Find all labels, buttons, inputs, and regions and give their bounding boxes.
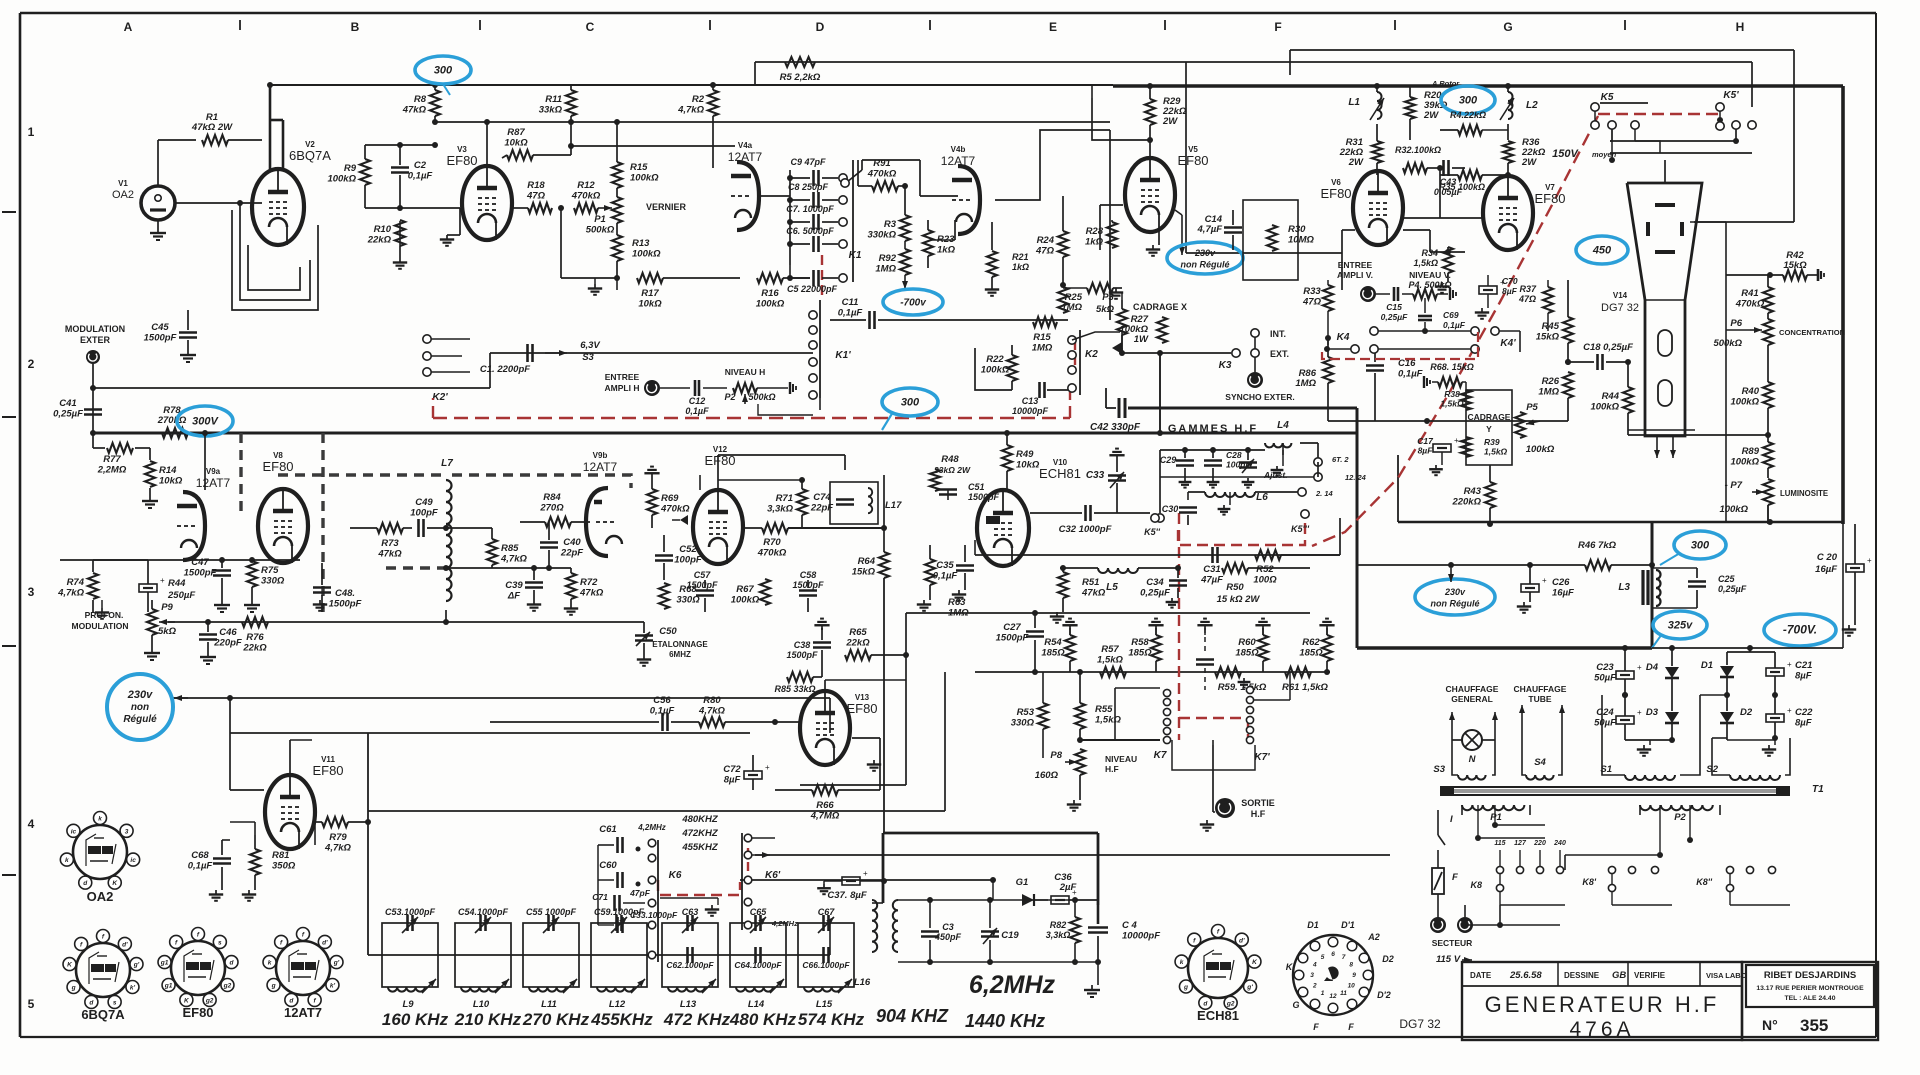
svg-text:C64.1000pF: C64.1000pF xyxy=(734,960,782,970)
svg-text:non Régulé: non Régulé xyxy=(1431,598,1480,608)
ground P8 xyxy=(1067,800,1081,811)
svg-text:L13: L13 xyxy=(680,999,697,1010)
switch K8 taps xyxy=(1470,840,1565,905)
potentiometer P3 CADRAGE X xyxy=(1096,292,1187,352)
svg-text:B: B xyxy=(351,20,360,34)
resistor R60 185 xyxy=(1235,619,1270,672)
svg-text:k: k xyxy=(65,857,69,864)
svg-text:C70: C70 xyxy=(1502,276,1518,286)
svg-text:355: 355 xyxy=(1800,1016,1828,1035)
svg-text:1,5kΩ: 1,5kΩ xyxy=(1440,399,1464,409)
ground R69 top xyxy=(644,467,659,478)
svg-text:C34: C34 xyxy=(1146,577,1164,588)
svg-text:100pF: 100pF xyxy=(674,555,702,566)
capacitor C28 100pF xyxy=(1204,450,1251,488)
svg-text:C51: C51 xyxy=(968,482,985,492)
resistor R41 470k xyxy=(1735,275,1773,318)
svg-text:D1: D1 xyxy=(1701,660,1713,671)
svg-text:220pF: 220pF xyxy=(213,638,242,649)
capacitor C22 8uF xyxy=(1766,692,1813,741)
resistor R40 100k xyxy=(1730,375,1773,420)
svg-text:TEL : ALE 24.40: TEL : ALE 24.40 xyxy=(1785,995,1836,1002)
capacitor C41 0.25uF xyxy=(53,385,102,436)
svg-text:0,1µF: 0,1µF xyxy=(838,308,863,319)
svg-text:0,25µF: 0,25µF xyxy=(53,409,83,420)
svg-text:8µF: 8µF xyxy=(1795,718,1812,729)
label 150V moyen xyxy=(1552,148,1616,163)
svg-text:EF80: EF80 xyxy=(312,763,343,778)
svg-text:47Ω: 47Ω xyxy=(1302,297,1322,308)
svg-text:127: 127 xyxy=(1514,840,1527,847)
svg-text:A: A xyxy=(124,20,133,34)
svg-text:C2: C2 xyxy=(414,160,427,171)
svg-text:N: N xyxy=(1469,754,1477,765)
svg-text:470kΩ: 470kΩ xyxy=(660,504,690,515)
svg-text:NIVEAU: NIVEAU xyxy=(1105,754,1137,764)
resistor R23 1k xyxy=(923,220,956,268)
svg-text:0,1µF: 0,1µF xyxy=(188,861,213,872)
tube V6 EF80 xyxy=(1320,171,1403,245)
svg-text:+: + xyxy=(1787,706,1792,715)
svg-text:R49: R49 xyxy=(1016,449,1034,460)
svg-text:+: + xyxy=(1867,556,1872,565)
wire osc mid horizontals xyxy=(740,855,1390,900)
svg-text:4,7MΩ: 4,7MΩ xyxy=(810,811,840,822)
svg-text:R74: R74 xyxy=(67,577,85,588)
blue note 230v non regule big xyxy=(1415,579,1495,615)
resistor R82 3.3k xyxy=(1046,897,1080,965)
ground C4 xyxy=(1084,985,1100,997)
tube V7 EF80 xyxy=(1483,176,1566,250)
capacitor C68 0.1uF xyxy=(188,840,231,890)
svg-text:R63: R63 xyxy=(948,597,966,608)
svg-text:+: + xyxy=(765,763,770,772)
terminal MODULATION EXTER xyxy=(65,324,125,433)
svg-text:480 KHz: 480 KHz xyxy=(729,1010,797,1029)
svg-text:L7: L7 xyxy=(441,458,453,469)
wire CRT cathode link xyxy=(1628,430,1771,438)
wire attenuator bus xyxy=(975,671,1330,673)
svg-text:SYNCHO EXTER.: SYNCHO EXTER. xyxy=(1225,392,1294,402)
svg-text:4,7µF: 4,7µF xyxy=(1197,224,1223,235)
red dashed screen link main xyxy=(433,392,1070,418)
svg-text:D2: D2 xyxy=(1740,707,1753,718)
svg-text:4,7kΩ: 4,7kΩ xyxy=(57,588,84,599)
title block xyxy=(1462,962,1747,1041)
svg-text:C19: C19 xyxy=(1001,930,1019,941)
red dashed K6 link xyxy=(658,848,748,895)
resistor R20 39k 2W xyxy=(1405,79,1460,140)
capacitor C58 1500pF xyxy=(792,570,824,612)
capacitor C37 8uF xyxy=(827,869,887,901)
resistor R58 185 xyxy=(1128,619,1163,672)
svg-text:+: + xyxy=(1542,576,1547,585)
label 480 KHz xyxy=(729,1010,797,1029)
capacitor C60 xyxy=(598,860,641,925)
svg-text:L5: L5 xyxy=(1106,582,1118,593)
svg-text:d': d' xyxy=(322,940,328,947)
svg-text:I: I xyxy=(1450,814,1453,825)
wire V3 plate xyxy=(484,119,490,166)
blue note 325v xyxy=(1652,611,1707,648)
svg-text:C60: C60 xyxy=(599,860,617,871)
ground C39 xyxy=(527,600,541,611)
label CHAUFFAGE GENERAL xyxy=(1446,684,1499,704)
diode G1 xyxy=(1016,877,1048,906)
svg-text:47kΩ 2W: 47kΩ 2W xyxy=(191,122,233,133)
svg-text:+: + xyxy=(863,869,868,878)
resistor R29 22k 2W xyxy=(1145,83,1187,160)
resistor R78 270k xyxy=(157,405,188,438)
svg-text:D2: D2 xyxy=(1382,954,1394,964)
ground R81 xyxy=(242,890,256,901)
svg-text:3,3kΩ: 3,3kΩ xyxy=(1046,930,1071,940)
svg-text:C8 250pF: C8 250pF xyxy=(788,182,829,192)
svg-text:100kΩ: 100kΩ xyxy=(1730,457,1759,468)
svg-text:C9 47pF: C9 47pF xyxy=(790,157,826,167)
wire bottom feedback long xyxy=(168,621,644,623)
svg-text:5kΩ: 5kΩ xyxy=(1096,304,1115,315)
svg-text:100kΩ: 100kΩ xyxy=(731,595,760,606)
svg-text:g: g xyxy=(1183,984,1188,991)
svg-text:C38: C38 xyxy=(794,640,811,650)
svg-text:6MHZ: 6MHZ xyxy=(669,650,691,659)
svg-text:C3: C3 xyxy=(942,922,954,932)
svg-text:2: 2 xyxy=(1312,983,1317,990)
capacitor C29 xyxy=(1160,450,1194,488)
resistor R79 4.7k xyxy=(315,817,371,854)
potentiometer P2 500k NIVEAU H xyxy=(724,367,813,415)
capacitor C1 2200pF xyxy=(480,340,601,375)
svg-text:ECH81: ECH81 xyxy=(1197,1008,1239,1023)
svg-text:C35: C35 xyxy=(936,560,954,571)
wire V2 anode leads xyxy=(267,82,283,170)
capacitor C70 8uF xyxy=(1475,275,1518,319)
svg-text:240: 240 xyxy=(1553,840,1566,847)
svg-text:6BQ7A: 6BQ7A xyxy=(289,148,331,163)
svg-text:22kΩ: 22kΩ xyxy=(845,638,870,649)
capacitor C6 5000pF xyxy=(786,226,847,252)
svg-text:330kΩ: 330kΩ xyxy=(867,230,896,241)
coil L6 xyxy=(1188,488,1334,503)
ground C46 xyxy=(200,652,216,664)
wire 300V main bus xyxy=(93,432,1357,435)
potentiometer P9 PROFON MODULATION xyxy=(72,600,177,648)
svg-text:6: 6 xyxy=(1331,951,1335,958)
svg-text:1500pF: 1500pF xyxy=(786,650,818,660)
label 6,2MHz xyxy=(969,971,1056,999)
svg-text:R24: R24 xyxy=(1037,235,1055,246)
svg-text:5: 5 xyxy=(28,997,35,1011)
svg-text:0,1µF: 0,1µF xyxy=(650,706,675,717)
ground V8 screen xyxy=(95,600,109,619)
resistor R1 47k 2W xyxy=(191,112,262,145)
potentiometer P1 500k VERNIER xyxy=(586,188,687,236)
wire S1 S2 loops xyxy=(1602,692,1727,775)
svg-text:47Ω: 47Ω xyxy=(1035,246,1055,257)
svg-text:R79: R79 xyxy=(329,832,347,843)
svg-text:4,7kΩ: 4,7kΩ xyxy=(324,843,351,854)
svg-text:230v: 230v xyxy=(1444,587,1466,597)
svg-text:R13: R13 xyxy=(632,238,650,249)
svg-text:s: s xyxy=(113,1000,117,1007)
svg-text:EF80: EF80 xyxy=(1320,186,1351,201)
svg-text:C1. 2200pF: C1. 2200pF xyxy=(480,364,530,375)
svg-text:R11: R11 xyxy=(545,94,562,105)
coil L15 xyxy=(804,979,852,1010)
svg-text:MODULATION: MODULATION xyxy=(65,324,125,334)
svg-text:g: g xyxy=(271,983,276,990)
svg-text:7: 7 xyxy=(1342,954,1346,961)
capacitor C13 10000pF xyxy=(1012,382,1070,416)
svg-text:C25: C25 xyxy=(1718,574,1736,584)
resistor R65 22k xyxy=(845,627,909,660)
coil L2 xyxy=(1500,83,1538,140)
wire K5 links xyxy=(1610,129,1660,160)
svg-text:C22: C22 xyxy=(1795,707,1813,718)
svg-text:CHAUFFAGE: CHAUFFAGE xyxy=(1446,684,1499,694)
capacitor C42 330pF xyxy=(1090,388,1141,433)
svg-text:C62.1000pF: C62.1000pF xyxy=(666,960,714,970)
resistor R35 100k xyxy=(1439,170,1511,192)
svg-text:185Ω: 185Ω xyxy=(1235,648,1259,659)
wire R5 feed xyxy=(755,62,1752,107)
svg-text:185Ω: 185Ω xyxy=(1299,648,1323,659)
switch K4 xyxy=(1324,327,1520,353)
svg-text:+: + xyxy=(1454,436,1459,445)
svg-text:H.F: H.F xyxy=(1251,809,1266,819)
svg-text:4,7kΩ: 4,7kΩ xyxy=(698,706,725,717)
svg-text:C21: C21 xyxy=(1795,660,1812,671)
potentiometer P7 100k LUMINOSITE xyxy=(1719,479,1828,524)
switch K5gammes contacts xyxy=(1144,510,1310,537)
svg-text:L2: L2 xyxy=(1526,100,1538,111)
svg-text:230v: 230v xyxy=(127,689,153,701)
coil L11 xyxy=(529,979,577,1010)
svg-text:R45: R45 xyxy=(1542,321,1560,332)
capacitor C4 10000pF xyxy=(1088,905,1160,985)
svg-text:1500pF: 1500pF xyxy=(686,580,718,590)
svg-text:13.17 RUE PERIER MONTROUGE: 13.17 RUE PERIER MONTROUGE xyxy=(1756,985,1864,992)
terminal INT EXT xyxy=(1251,329,1289,359)
svg-text:300: 300 xyxy=(1459,95,1478,107)
wire V4a output xyxy=(757,170,790,265)
svg-text:MODULATION: MODULATION xyxy=(72,621,129,631)
svg-text:C46: C46 xyxy=(219,627,237,638)
wire niveau hf run xyxy=(368,672,945,811)
switch K2 xyxy=(1068,330,1122,395)
svg-text:P4. 500kΩ: P4. 500kΩ xyxy=(1408,280,1451,290)
svg-text:270Ω: 270Ω xyxy=(539,503,564,514)
resistor R64 15k xyxy=(852,475,889,833)
svg-text:C72: C72 xyxy=(723,764,741,775)
wire K5 row xyxy=(1610,125,1752,153)
svg-text:0,25µF: 0,25µF xyxy=(1140,588,1170,599)
svg-text:R55: R55 xyxy=(1095,704,1113,715)
resistor R71 3.3k xyxy=(718,477,807,528)
svg-text:5: 5 xyxy=(1321,954,1325,961)
svg-text:500kΩ: 500kΩ xyxy=(748,392,775,402)
svg-text:904 KHZ: 904 KHZ xyxy=(876,1006,949,1026)
svg-text:k: k xyxy=(98,816,102,823)
capacitor C8 250pF xyxy=(787,182,847,208)
svg-text:4: 4 xyxy=(28,817,35,831)
svg-text:500kΩ: 500kΩ xyxy=(586,225,615,236)
svg-text:C41: C41 xyxy=(59,398,76,409)
ground P9 xyxy=(144,648,160,660)
svg-text:100kΩ: 100kΩ xyxy=(1590,402,1619,413)
svg-text:C 4: C 4 xyxy=(1122,920,1138,931)
svg-text:LUMINOSITE: LUMINOSITE xyxy=(1780,489,1828,498)
resistor R34 1.5k xyxy=(1413,247,1453,293)
svg-text:Régulé: Régulé xyxy=(123,714,157,725)
svg-text:47kΩ: 47kΩ xyxy=(377,549,402,560)
capacitor C55_1000pF xyxy=(523,907,579,987)
svg-text:R82: R82 xyxy=(1050,920,1067,930)
svg-text:R41: R41 xyxy=(1741,288,1758,299)
svg-text:0,1µF: 0,1µF xyxy=(685,406,709,416)
wire transformer interconnect xyxy=(1475,805,1693,870)
svg-text:+: + xyxy=(1637,708,1642,717)
svg-text:GB: GB xyxy=(1612,970,1626,981)
capacitor C54.1000pF xyxy=(455,907,511,987)
wire ech81 out xyxy=(975,540,1340,555)
svg-text:1: 1 xyxy=(28,125,35,139)
svg-text:P5: P5 xyxy=(1526,402,1538,413)
capacitor C19 variable xyxy=(981,897,1019,965)
switch K6 contacts xyxy=(637,823,682,962)
svg-text:ECH81: ECH81 xyxy=(1039,466,1081,481)
svg-text:C58: C58 xyxy=(800,570,817,580)
svg-text:g1: g1 xyxy=(160,960,169,967)
capacitor C67 xyxy=(798,907,854,987)
resistor R3 330k xyxy=(867,186,910,241)
svg-text:15 kΩ 2W: 15 kΩ 2W xyxy=(1217,594,1261,605)
resistor R43 220k xyxy=(1451,465,1495,527)
ground R33b xyxy=(985,285,999,296)
svg-text:47pF: 47pF xyxy=(629,888,651,898)
resistor R18 47 xyxy=(512,180,552,213)
svg-text:V9a: V9a xyxy=(206,467,221,476)
wire 12AT7 V9a grid drop xyxy=(202,430,208,490)
svg-text:R14: R14 xyxy=(159,465,177,476)
resistor R73 47k xyxy=(350,523,412,560)
svg-text:R75: R75 xyxy=(261,565,279,576)
svg-text:100kΩ: 100kΩ xyxy=(630,173,659,184)
red dashed diagonal to K5 xyxy=(1312,116,1598,546)
svg-text:R60: R60 xyxy=(1238,637,1256,648)
resistor R48 33k xyxy=(930,454,971,491)
trimmer Ajust xyxy=(1239,450,1288,488)
svg-text:ENTREE: ENTREE xyxy=(605,372,640,382)
capacitor C7 1000pF xyxy=(786,204,847,230)
svg-text:230v: 230v xyxy=(1194,248,1216,258)
label 574 KHz xyxy=(798,1010,865,1029)
svg-text:GENERATEUR H.F: GENERATEUR H.F xyxy=(1485,992,1720,1017)
svg-text:R2: R2 xyxy=(692,94,705,105)
svg-text:2: 2 xyxy=(28,357,35,371)
svg-text:R87: R87 xyxy=(507,127,525,138)
label 472 KHz xyxy=(663,1010,731,1029)
svg-text:0,1µF: 0,1µF xyxy=(1443,320,1466,330)
svg-text:- P7: - P7 xyxy=(1725,480,1743,491)
wire tank bus xyxy=(368,923,830,955)
coil L1 xyxy=(1348,83,1384,140)
blue note 300 center xyxy=(882,388,938,430)
svg-text:P8: P8 xyxy=(1050,750,1062,761)
svg-text:R62: R62 xyxy=(1302,637,1320,648)
capacitor C35 0.1uF xyxy=(933,545,974,601)
capacitor C17 8uF xyxy=(1417,436,1459,475)
svg-text:270 KHz: 270 KHz xyxy=(522,1010,590,1029)
resistor R37 47 xyxy=(1518,280,1553,331)
svg-text:1MΩ: 1MΩ xyxy=(875,264,896,275)
svg-text:1kΩ: 1kΩ xyxy=(1012,262,1029,272)
svg-text:3: 3 xyxy=(1310,972,1314,979)
svg-text:K1: K1 xyxy=(849,250,862,261)
svg-text:k': k' xyxy=(130,985,136,992)
resistor R80 4.7k xyxy=(698,695,800,727)
wire V5 output xyxy=(1100,205,1185,255)
coil L7 xyxy=(441,458,453,601)
ground V3 cathode xyxy=(440,208,460,246)
svg-text:R72: R72 xyxy=(580,577,598,588)
svg-text:C: C xyxy=(586,20,595,34)
svg-text:G: G xyxy=(1292,1000,1299,1010)
terminal SYNCHO EXTER xyxy=(1225,357,1294,402)
svg-text:11: 11 xyxy=(1340,990,1347,997)
resistor R25 1M xyxy=(1061,283,1122,313)
resistor R9 100k xyxy=(327,145,370,208)
resistor R31 22k 2W xyxy=(1339,137,1382,175)
svg-text:2W: 2W xyxy=(1423,110,1439,121)
wire R9C2 rails xyxy=(365,142,460,208)
svg-text:R34: R34 xyxy=(1421,248,1438,258)
wire V8 cathode rail xyxy=(188,557,300,563)
svg-text:non Régulé: non Régulé xyxy=(1181,259,1230,269)
svg-text:L11: L11 xyxy=(541,999,557,1010)
red dashed K5 link xyxy=(1598,113,1718,115)
svg-text:12AT7: 12AT7 xyxy=(196,476,231,490)
svg-text:8µF: 8µF xyxy=(1795,671,1812,682)
svg-text:L17: L17 xyxy=(885,500,902,511)
socket EF80 base diagram xyxy=(158,928,238,1021)
capacitor C27 1500pF xyxy=(996,610,1044,675)
ground L6 xyxy=(1218,492,1231,515)
svg-text:L15: L15 xyxy=(816,999,833,1010)
capacitor C11 0.1uF xyxy=(830,297,1068,329)
tube V11 EF80 xyxy=(265,755,344,849)
socket OA2 base diagram xyxy=(60,812,139,905)
svg-text:450pF: 450pF xyxy=(934,932,962,942)
svg-text:10kΩ: 10kΩ xyxy=(638,299,662,310)
svg-text:V4b: V4b xyxy=(951,145,966,154)
resistor R51 47k xyxy=(1058,565,1106,612)
svg-text:8µF: 8µF xyxy=(1418,446,1434,456)
svg-text:SECTEUR: SECTEUR xyxy=(1432,938,1473,948)
svg-text:R43: R43 xyxy=(1464,486,1482,497)
svg-text:1440 KHz: 1440 KHz xyxy=(965,1011,1045,1031)
capacitor C66.1000pF xyxy=(802,947,850,970)
svg-text:1MΩ: 1MΩ xyxy=(1538,387,1559,398)
svg-text:g1: g1 xyxy=(164,983,173,990)
svg-text:15kΩ: 15kΩ xyxy=(1536,332,1560,343)
svg-text:R48: R48 xyxy=(941,454,959,465)
svg-text:C68: C68 xyxy=(191,850,209,861)
svg-text:D: D xyxy=(816,20,825,34)
ground R10 xyxy=(393,258,407,269)
wire screen bus xyxy=(435,121,1110,123)
